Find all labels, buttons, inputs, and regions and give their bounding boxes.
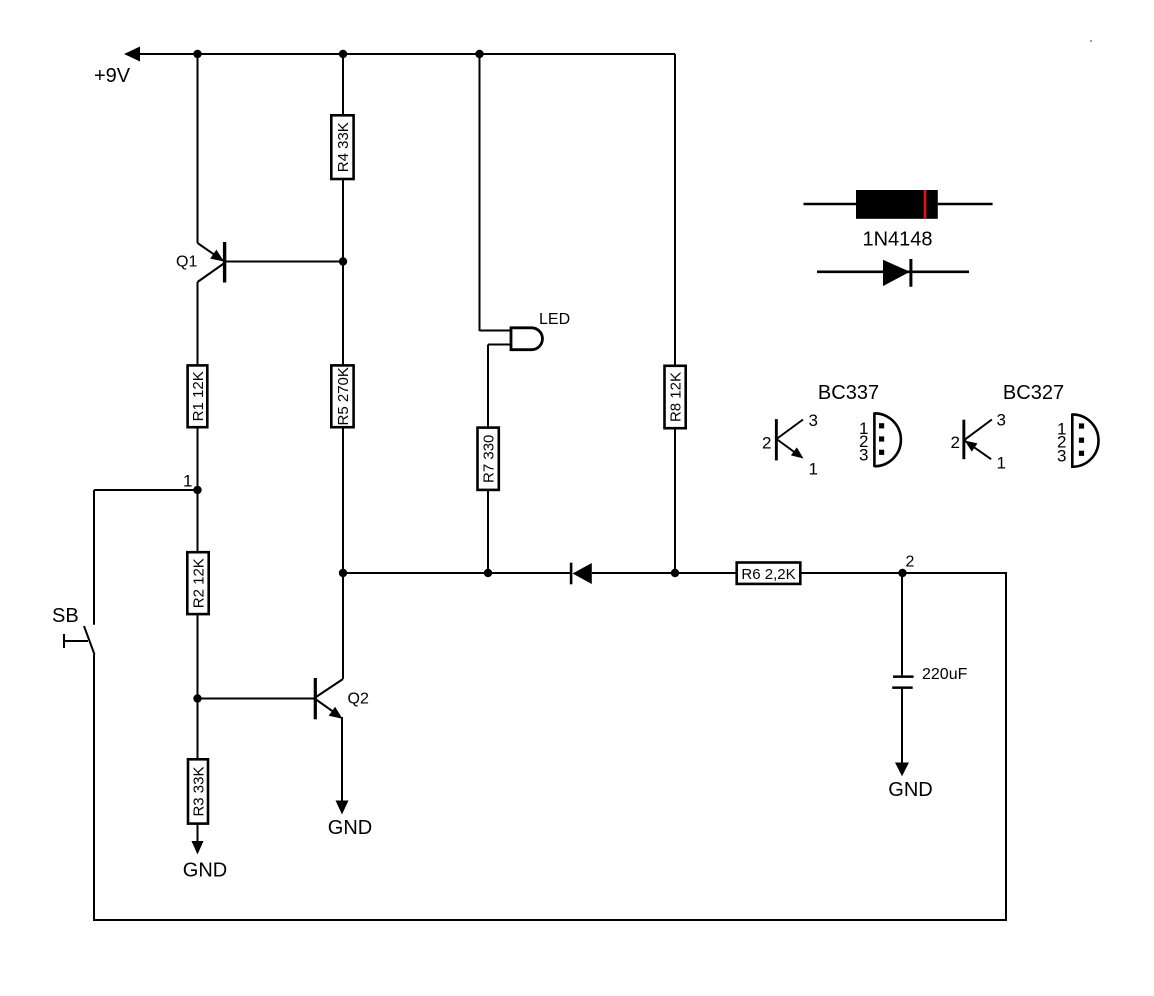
svg-text:R7 330: R7 330 <box>480 435 497 483</box>
svg-text:R5 270K: R5 270K <box>335 367 352 425</box>
svg-text:GND: GND <box>183 860 227 882</box>
svg-text:GND: GND <box>888 779 932 801</box>
svg-text:R1 12K: R1 12K <box>190 371 207 421</box>
svg-text:R3 33K: R3 33K <box>190 766 207 816</box>
svg-text:1: 1 <box>183 472 192 491</box>
svg-text:3: 3 <box>997 411 1006 430</box>
svg-text:2: 2 <box>906 554 915 571</box>
svg-text:2: 2 <box>951 433 960 452</box>
svg-text:220uF: 220uF <box>922 666 968 683</box>
svg-text:R8 12K: R8 12K <box>667 372 684 422</box>
svg-text:LED: LED <box>539 311 570 328</box>
svg-text:R6 2,2K: R6 2,2K <box>741 566 795 583</box>
svg-text:R4 33K: R4 33K <box>335 122 352 172</box>
svg-text:3: 3 <box>809 411 818 430</box>
svg-text:Q2: Q2 <box>348 691 369 708</box>
svg-text:R2 12K: R2 12K <box>190 558 207 608</box>
svg-text:SB: SB <box>52 605 79 627</box>
svg-text:3: 3 <box>1057 447 1066 466</box>
svg-text:2: 2 <box>762 434 771 453</box>
svg-text:1: 1 <box>997 454 1006 473</box>
svg-text:Q1: Q1 <box>176 254 197 271</box>
svg-text:1: 1 <box>809 460 818 479</box>
svg-text:BC327: BC327 <box>1003 382 1064 404</box>
svg-text:BC337: BC337 <box>818 382 879 404</box>
svg-text:3: 3 <box>859 446 868 465</box>
svg-text:GND: GND <box>328 817 372 839</box>
svg-text:+9V: +9V <box>94 65 131 87</box>
svg-text:1N4148: 1N4148 <box>862 229 932 251</box>
